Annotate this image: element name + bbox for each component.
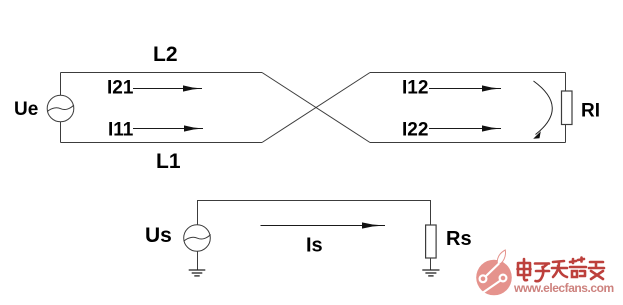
svg-text:Us: Us xyxy=(145,224,172,247)
svg-text:Ue: Ue xyxy=(14,99,38,120)
resistor Rs xyxy=(426,225,437,258)
svg-text:I12: I12 xyxy=(402,78,428,99)
wire L1 bottom-left horizontal xyxy=(61,142,263,144)
current arrow I12 xyxy=(429,85,501,91)
ground (below Us) xyxy=(189,270,206,276)
svg-text:RI: RI xyxy=(581,101,600,122)
wire crossing diagonal (top-left to bottom-right) xyxy=(262,73,370,143)
voltage source Ue xyxy=(47,95,74,122)
svg-text:www.elecfans.com: www.elecfans.com xyxy=(513,281,614,295)
svg-text:L2: L2 xyxy=(153,43,178,66)
wire left vertical (Ue branch) xyxy=(60,73,62,143)
svg-text:Rs: Rs xyxy=(446,228,472,250)
svg-text:L1: L1 xyxy=(156,150,181,173)
resistor RI xyxy=(562,91,573,125)
ground (below Rs) xyxy=(422,270,439,276)
current arrow Is xyxy=(261,222,386,228)
svg-text:I11: I11 xyxy=(108,120,134,141)
wire L2 top-left horizontal xyxy=(61,72,263,74)
wire bottom-right horizontal xyxy=(370,142,566,144)
watermark logo (elecfans) xyxy=(476,250,512,295)
current arrow I21 xyxy=(133,85,202,91)
wire Us to ground xyxy=(197,251,199,269)
svg-text:I22: I22 xyxy=(402,120,428,141)
curved current-direction arrow at RI xyxy=(533,81,552,139)
wire right vertical (RI branch) xyxy=(565,73,567,143)
svg-text:I21: I21 xyxy=(107,78,134,99)
watermark text 电子发烧友 (stroke approximation) xyxy=(518,258,605,282)
svg-text:Is: Is xyxy=(306,235,323,257)
wire Us top horizontal xyxy=(198,201,431,226)
wire crossing diagonal (bottom-left to top-right) xyxy=(262,73,370,143)
current arrow I22 xyxy=(429,125,501,131)
voltage source Us xyxy=(184,225,211,252)
wire top-right horizontal xyxy=(370,72,566,74)
wire Rs to ground xyxy=(430,258,432,270)
current arrow I11 xyxy=(133,125,203,131)
